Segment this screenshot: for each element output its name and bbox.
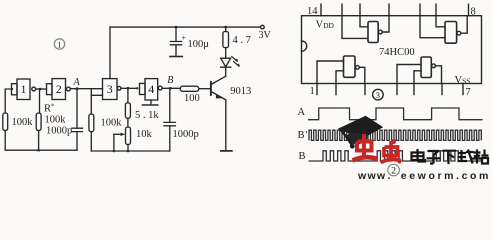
svg-text:3: 3	[376, 90, 380, 100]
gate 2 body	[52, 79, 66, 100]
svg-text:B ': B '	[298, 130, 308, 141]
waveform B trace	[309, 151, 483, 161]
junction dot pot on rail	[127, 150, 130, 153]
LED D1 triangle	[221, 58, 231, 67]
gate A output wire	[382, 16, 389, 32]
svg-text:9013: 9013	[230, 86, 251, 97]
wire rail to gate 3 top	[109, 27, 111, 78]
pin 13 leg	[341, 4, 343, 16]
resistor R1 bottom wire	[4, 131, 6, 151]
internal gate C body	[344, 56, 356, 77]
svg-text:8: 8	[471, 6, 476, 17]
figure label 2 (circled)	[388, 164, 400, 176]
node junction rail/C1	[175, 26, 178, 29]
potentiometer RP1 10k body	[126, 127, 131, 145]
watermark bug char 1	[353, 134, 379, 162]
watermark bug char 2	[381, 139, 402, 164]
wire gate1 out to gate2 in	[36, 88, 47, 90]
wire junction to R*	[39, 89, 41, 113]
potentiometer bottom wire	[127, 145, 129, 151]
junction dot R* on rail	[37, 149, 40, 152]
gate 1 body	[17, 79, 30, 100]
pin 10 leg	[419, 4, 421, 16]
gate 3 lower input branch	[91, 89, 102, 96]
resistor R2 4.7 wire	[225, 27, 227, 31]
char zai	[458, 150, 474, 164]
gate 4 input stub	[140, 83, 146, 94]
capacitor C2 wire from node A	[76, 89, 78, 128]
gate D input wires	[397, 65, 421, 84]
svg-text:100k: 100k	[45, 114, 67, 125]
internal gate A bubble	[379, 30, 383, 34]
oscillator 2 bottom rail	[91, 150, 169, 152]
svg-text:3: 3	[107, 82, 113, 96]
svg-text:100μ: 100μ	[188, 39, 210, 50]
pin 7 leg	[462, 84, 464, 95]
internal gate C bubble	[356, 65, 360, 69]
svg-text:1: 1	[57, 39, 61, 49]
gate 3 body	[103, 79, 118, 100]
svg-text:100k: 100k	[101, 118, 123, 129]
svg-text:VSS: VSS	[455, 75, 471, 86]
resistor R2 4.7 body	[223, 32, 229, 48]
waveform B' trace	[309, 130, 481, 140]
gate D output wire	[436, 66, 442, 84]
svg-text:.: .	[388, 170, 391, 180]
wire junction to R4	[127, 88, 129, 103]
junction dot wiper on rail	[113, 150, 116, 153]
pin 6 leg	[441, 84, 443, 95]
svg-text:3V: 3V	[259, 30, 272, 41]
svg-text:A: A	[298, 107, 306, 118]
figure label 3 (circled)	[373, 89, 384, 100]
potentiometer RP1 wiper arrow	[114, 133, 121, 135]
svg-text:eeworm.com: eeworm.com	[401, 170, 491, 180]
gate B input wires	[420, 16, 445, 38]
transistor Q1 9013 base wire	[199, 88, 211, 90]
pin 14 leg	[320, 4, 322, 16]
resistor R* bottom wire	[38, 131, 40, 151]
ground bar under gate 4	[143, 104, 158, 106]
gate C output wire	[359, 67, 365, 83]
internal gate B bubble	[457, 31, 461, 35]
wire gate2 out to gate3 (node A)	[70, 88, 102, 90]
LED to collector wire	[225, 67, 227, 76]
wire branch to R3	[90, 95, 92, 114]
svg-text:100k: 100k	[12, 117, 34, 128]
wire gate4 out to node B	[162, 87, 180, 89]
watermark graduation cap tassel	[341, 130, 352, 145]
resistor R* body	[36, 113, 41, 131]
capacitor C2 plates	[72, 128, 83, 131]
capacitor C1 bottom wire	[175, 45, 177, 57]
pin 8 leg	[468, 4, 470, 16]
svg-text:5 . 1k: 5 . 1k	[135, 110, 159, 121]
svg-text:1: 1	[21, 82, 27, 96]
svg-text:100: 100	[184, 93, 200, 104]
capacitor C3 bottom wire	[169, 126, 171, 151]
pin 1 leg	[316, 84, 318, 95]
watermark graduation cap head	[346, 133, 368, 145]
svg-text:2: 2	[391, 167, 396, 177]
gate 2 input stub	[47, 84, 53, 95]
capacitor C2 bottom wire	[76, 132, 78, 151]
gate 4 output bubble	[158, 86, 162, 90]
resistor R1 100k body	[3, 113, 8, 131]
node junction g3-g4	[127, 87, 130, 90]
capacitor C1 100u wire	[175, 27, 177, 41]
resistor R3 bottom wire	[90, 132, 92, 151]
svg-text:14: 14	[307, 6, 318, 17]
internal gate A body	[368, 22, 378, 43]
svg-text:10k: 10k	[136, 129, 153, 140]
LED D1 light arrows	[232, 57, 239, 67]
pin 9 leg	[435, 4, 437, 16]
node B dot	[169, 87, 172, 90]
capacitor C1 100u plates	[170, 42, 181, 45]
svg-text:1000p: 1000p	[173, 129, 199, 140]
watermark graduation cap board	[338, 116, 384, 139]
resistor R4 5.1k body	[125, 103, 130, 119]
svg-text:1: 1	[310, 86, 315, 97]
svg-text:B: B	[299, 151, 306, 162]
node A dot	[76, 87, 79, 90]
gate B output wire	[461, 16, 467, 34]
pin 2 leg	[335, 84, 337, 95]
gate 2 output bubble	[67, 87, 71, 91]
svg-text:2: 2	[56, 82, 62, 96]
svg-text:4: 4	[148, 82, 154, 96]
resistor R3 100k body	[89, 114, 94, 132]
gate 1 input dot	[11, 88, 13, 90]
svg-text:A: A	[73, 77, 81, 88]
IC U1 74HC00 body	[302, 16, 482, 84]
capacitor C3 wire from node B	[169, 88, 171, 122]
internal gate D bubble	[432, 64, 436, 68]
gate 4 input dot	[136, 87, 138, 89]
pin 3 leg	[364, 84, 366, 95]
transistor Q1 collector	[211, 76, 226, 84]
potentiometer wiper wire down	[113, 134, 115, 151]
top supply rail wire	[110, 26, 261, 28]
emitter wire down	[225, 100, 227, 151]
svg-text:B: B	[167, 75, 173, 86]
pin 11 leg	[388, 4, 390, 16]
feedback wire gate1 input to R1	[5, 89, 12, 113]
pin 5 leg	[413, 84, 415, 95]
char zi	[427, 151, 441, 164]
transistor Q1 emitter with arrow	[211, 92, 226, 100]
char xia	[443, 151, 457, 164]
pin 12 leg	[359, 4, 361, 16]
LED D1 cathode bar	[221, 66, 231, 68]
wire gate3 out to gate4 in	[121, 87, 137, 89]
internal gate B body	[445, 22, 457, 44]
internal gate D body	[421, 57, 431, 78]
char dian	[412, 149, 426, 162]
gate 3 output bubble	[117, 86, 121, 90]
resistor R5 100 body	[180, 86, 198, 91]
gate 4 body	[145, 79, 158, 100]
waveform A trace	[308, 108, 483, 120]
svg-text:74HC00: 74HC00	[379, 47, 415, 58]
gate 1 input stub	[12, 84, 18, 95]
terminal 3V	[261, 25, 265, 29]
svg-text:1000p: 1000p	[46, 125, 72, 136]
gate C input wires	[317, 61, 344, 84]
gate 1 output bubble	[32, 87, 36, 91]
LED D1 anode wire	[225, 48, 227, 59]
node junction g1-g2	[39, 88, 42, 91]
node junction rail/R 4.7	[224, 26, 227, 29]
ground under C1	[170, 56, 182, 58]
pin 4 leg	[396, 84, 398, 95]
transistor Q1 base bar	[210, 82, 212, 95]
capacitor C3 plates	[164, 122, 176, 125]
svg-text:4 . 7: 4 . 7	[233, 35, 251, 46]
figure label 1 (circled)	[54, 39, 64, 50]
char zhan	[473, 150, 489, 164]
svg-text:www: www	[357, 170, 386, 180]
ground under emitter	[221, 150, 232, 152]
gate A input wires	[342, 16, 368, 39]
IC notch	[302, 41, 307, 51]
oscillator 1 bottom rail	[5, 149, 77, 151]
svg-text:+: +	[182, 34, 187, 43]
wire R4 to RP1	[127, 118, 129, 127]
svg-text:VDD: VDD	[316, 20, 335, 31]
gate 4 ground stub	[150, 100, 152, 105]
watermark text dianzi xiazaizhan	[412, 149, 489, 164]
svg-text:7: 7	[466, 87, 471, 98]
